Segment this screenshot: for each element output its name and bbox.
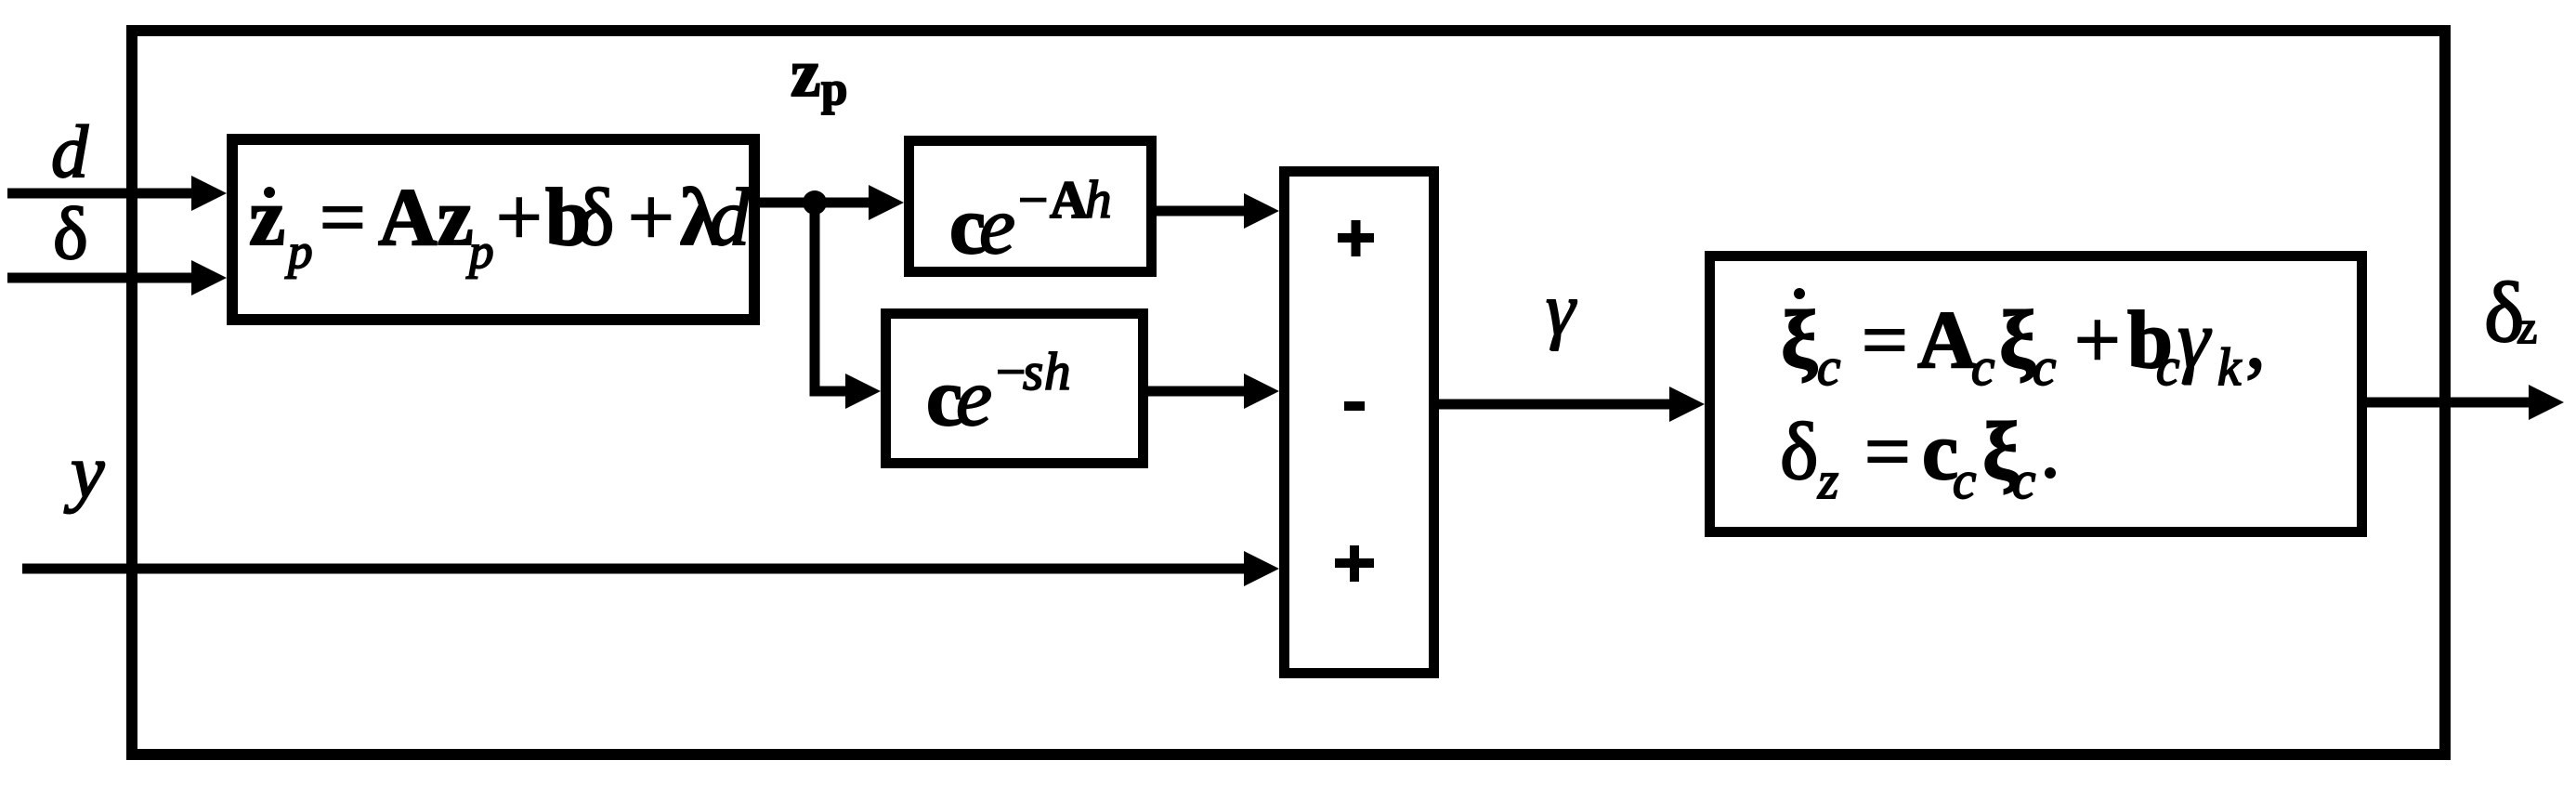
svg-text:z: z [1817,452,1838,510]
svg-text:c: c [2012,452,2035,510]
svg-text:+: + [2074,295,2121,386]
svg-text:ξ: ξ [1781,295,1818,386]
svg-text:e: e [956,353,992,443]
svg-text:+: + [496,173,543,263]
svg-text:γ: γ [1546,269,1577,351]
svg-text:c: c [1817,338,1840,397]
svg-text:z: z [791,35,820,111]
svg-text:e: e [979,181,1015,271]
svg-text:δ: δ [576,173,614,263]
svg-text:c: c [1971,338,1994,397]
svg-text:γ: γ [2177,295,2212,386]
svg-text:δ: δ [1780,407,1818,497]
svg-text:=: = [1864,407,1911,497]
svg-text:A: A [1050,171,1088,230]
svg-text:,: , [2245,295,2266,386]
svg-text:=: = [320,173,366,263]
svg-text:−: − [1018,171,1048,230]
svg-text:s: s [1023,343,1043,401]
svg-text:c: c [1953,452,1976,510]
svg-text:p: p [821,63,847,115]
svg-text:δ: δ [53,193,88,275]
svg-text:p: p [284,225,313,279]
svg-text:d: d [51,111,89,193]
svg-text:h: h [1085,171,1112,230]
svg-text:k: k [2217,338,2243,397]
svg-text:c: c [2033,338,2056,397]
svg-text:+: + [628,173,674,263]
svg-text:−: − [996,343,1026,401]
svg-text:=: = [1862,295,1908,386]
svg-text:d: d [709,173,751,263]
svg-text:h: h [1044,343,1071,401]
svg-text:z: z [249,173,285,263]
svg-text:p: p [465,225,494,279]
svg-text:Az: Az [378,173,474,263]
svg-text:z: z [2517,301,2537,353]
svg-text:y: y [64,429,105,514]
svg-text:c: c [2156,338,2179,397]
svg-text:A: A [1917,295,1977,386]
svg-text:ξ: ξ [1999,295,2036,386]
